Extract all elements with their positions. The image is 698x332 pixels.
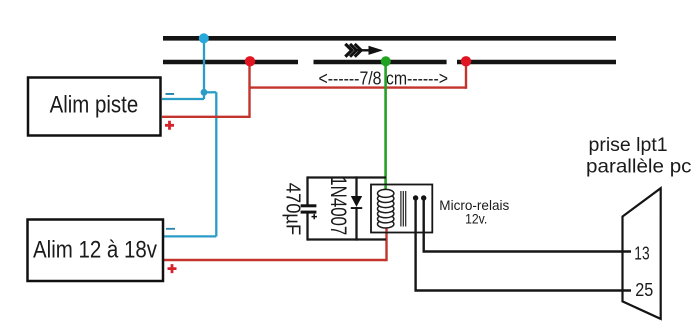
svg-text:parallèle pc: parallèle pc [586,156,692,178]
svg-text:1N4007: 1N4007 [326,176,351,235]
svg-text:25: 25 [635,279,653,300]
svg-text:prise lpt1: prise lpt1 [589,134,668,156]
svg-text:Alim piste: Alim piste [50,93,139,119]
svg-text:470µF: 470µF [282,183,304,236]
svg-text:Alim 12 à 18v: Alim 12 à 18v [33,238,157,264]
svg-text:<------7/8 cm------>: <------7/8 cm------> [319,68,449,88]
svg-text:13: 13 [634,243,649,264]
svg-text:12v.: 12v. [465,210,487,226]
